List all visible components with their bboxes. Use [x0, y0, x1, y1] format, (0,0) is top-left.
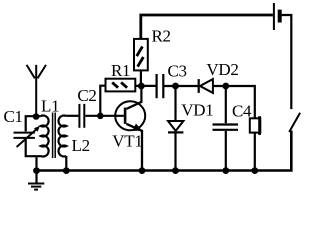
svg-text:L1: L1: [41, 97, 59, 116]
svg-text:VT1: VT1: [112, 132, 142, 151]
svg-text:R2: R2: [152, 27, 171, 46]
svg-text:C1: C1: [4, 107, 23, 126]
svg-text:VD2: VD2: [206, 60, 238, 79]
svg-text:R1: R1: [111, 61, 130, 80]
svg-text:VD1: VD1: [181, 100, 213, 119]
svg-text:L2: L2: [72, 136, 90, 155]
svg-text:C4: C4: [232, 102, 252, 121]
svg-text:C3: C3: [168, 62, 187, 81]
svg-text:C2: C2: [77, 86, 96, 105]
